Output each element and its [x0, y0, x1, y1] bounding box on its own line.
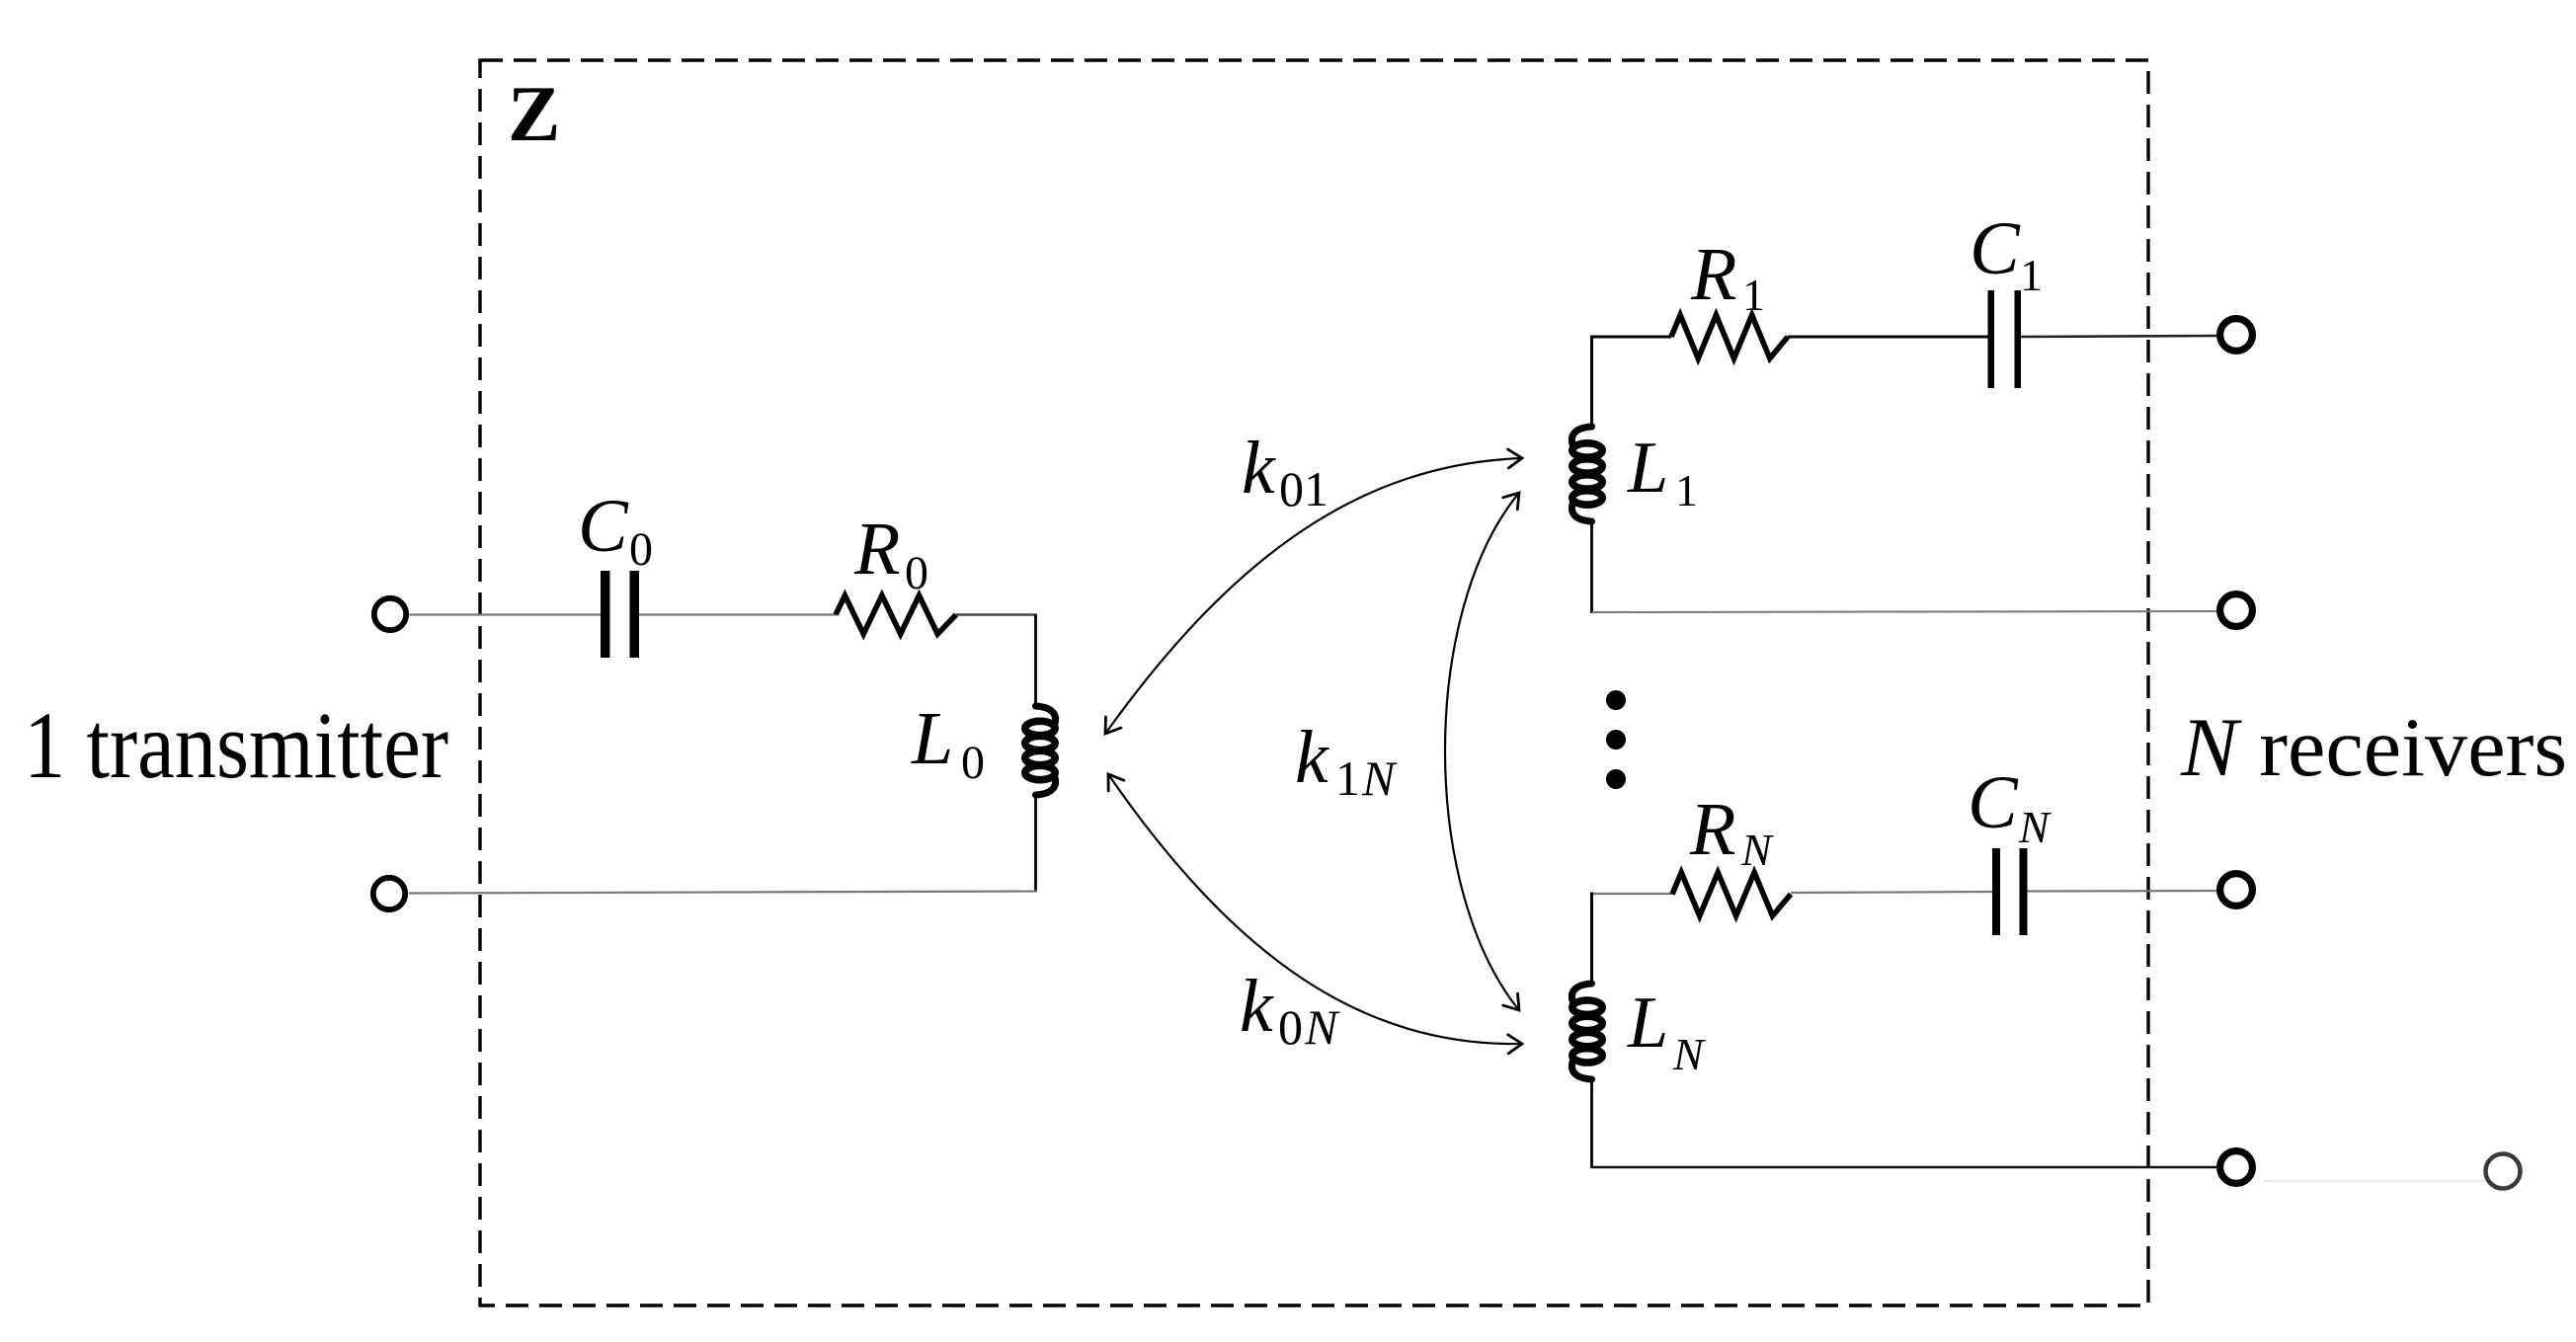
- wire: rxN top rail corner to RN: [1590, 893, 1672, 895]
- dots: more receivers ellipsis: [1606, 690, 1626, 710]
- inductor LN: [1571, 984, 1591, 1002]
- inductor L1: [1571, 427, 1591, 445]
- svg-text:0: 0: [1278, 999, 1303, 1055]
- svg-text:R: R: [1690, 233, 1736, 316]
- svg-text:C: C: [578, 485, 629, 568]
- svg-text:0: 0: [905, 547, 928, 599]
- svg-text:1 transmitter: 1 transmitter: [24, 692, 448, 798]
- resistor R0: [836, 595, 956, 634]
- wire: tx vertical down to L0: [1034, 615, 1037, 708]
- svg-text:Z: Z: [508, 71, 560, 158]
- svg-text:L: L: [1627, 983, 1668, 1064]
- coupling arrow k01 curve: [1105, 458, 1522, 734]
- capacitor CN: [1992, 848, 2000, 935]
- resistor RN: [1672, 873, 1791, 916]
- svg-text:1: 1: [1675, 465, 1698, 515]
- capacitor C1: [1988, 290, 1995, 388]
- svg-text:R: R: [853, 508, 900, 591]
- terminal: rxN top port: [2220, 874, 2253, 907]
- svg-text:N: N: [1672, 1029, 1706, 1079]
- wire: tx bottom rail: [409, 892, 1037, 894]
- wire: L1 down to rx1 bottom rail: [1590, 520, 1593, 613]
- svg-text:N: N: [1740, 825, 1774, 875]
- terminal: rxN bottom port: [2220, 1151, 2253, 1184]
- wire: tx top terminal to C0: [410, 613, 602, 615]
- svg-text:L: L: [911, 697, 953, 780]
- svg-text:N receivers: N receivers: [2180, 701, 2567, 794]
- dashed box Z boundary: [480, 60, 2148, 1305]
- svg-text:N: N: [1304, 999, 1340, 1055]
- svg-text:C: C: [1968, 761, 2019, 844]
- wire: rx1 vertical from top rail to L1: [1590, 336, 1593, 429]
- coupling arrow k0N curve: [1108, 774, 1522, 1044]
- faint wire stub right of rxN bottom terminal: [2264, 1180, 2485, 1182]
- svg-text:k: k: [1242, 427, 1276, 510]
- wire: rxN bottom rail to terminal: [1592, 1166, 2217, 1168]
- terminal: transmitter top port: [374, 598, 406, 630]
- svg-text:1: 1: [2020, 250, 2043, 300]
- wire: rx1 top rail, corner to R1: [1590, 336, 1671, 339]
- svg-text:C: C: [1970, 207, 2021, 290]
- terminal: rx1 top port: [2220, 319, 2253, 352]
- wire: R0 to top-right corner of tx loop: [956, 613, 1037, 615]
- wire: LN down to rxN bottom rail: [1590, 1078, 1593, 1168]
- svg-text:k: k: [1240, 965, 1274, 1048]
- coupling arrow k1N curve: [1445, 493, 1519, 1010]
- svg-text:R: R: [1689, 788, 1735, 871]
- svg-text:L: L: [1627, 428, 1668, 509]
- svg-text:k: k: [1295, 716, 1329, 799]
- wire: RN to CN: [1791, 892, 1992, 893]
- wire: C1 to rx1 top terminal: [2021, 336, 2217, 337]
- terminal: transmitter bottom port: [373, 878, 405, 909]
- svg-text:N: N: [2018, 802, 2052, 852]
- faint extra terminal circle bottom right: [2486, 1154, 2521, 1189]
- wire: CN to rxN top terminal: [2028, 890, 2217, 893]
- wire: R1 to C1: [1788, 336, 1988, 339]
- svg-text:0: 0: [629, 523, 653, 576]
- terminal: rx1 bottom port: [2220, 594, 2253, 627]
- svg-text:1: 1: [1335, 750, 1360, 806]
- wire: rxN vertical from top rail to LN: [1590, 893, 1593, 986]
- svg-text:0: 0: [961, 737, 985, 789]
- svg-text:01: 01: [1279, 461, 1328, 516]
- resistor R1: [1671, 315, 1788, 358]
- wire: L0 down to bottom rail: [1034, 794, 1037, 892]
- wire: C0 to R0: [639, 613, 836, 615]
- inductor L0: [1036, 706, 1056, 725]
- capacitor C0: [601, 571, 610, 658]
- svg-text:N: N: [1361, 750, 1398, 806]
- wire: rx1 bottom rail to terminal: [1592, 611, 2217, 612]
- svg-text:1: 1: [1742, 270, 1765, 320]
